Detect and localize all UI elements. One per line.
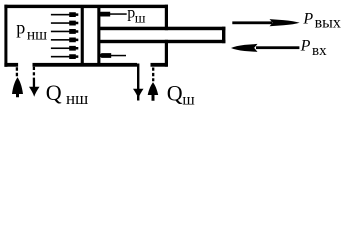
rod end cap <box>222 27 225 44</box>
pressure arrow pnsh 1 <box>51 12 78 17</box>
arrow Pvyh <box>232 19 299 26</box>
svg-text:нш: нш <box>66 89 88 108</box>
label psh <box>127 5 146 27</box>
svg-text:вх: вх <box>312 43 327 59</box>
pressure arrow pnsh 3 <box>51 29 78 34</box>
cylinder bottom wall segment 1 <box>4 63 18 67</box>
label pnsh <box>16 18 47 44</box>
cylinder left wall <box>4 5 7 67</box>
label Pvyh <box>302 10 341 31</box>
svg-text:Q: Q <box>46 80 62 105</box>
piston left face <box>81 8 84 63</box>
svg-text:ш: ш <box>182 91 195 108</box>
pressure arrow pnsh 4 <box>51 37 78 42</box>
cylinder top wall <box>4 5 168 8</box>
svg-text:P: P <box>302 10 313 27</box>
cylinder right wall lower <box>165 40 168 67</box>
arrow psh <box>99 12 127 17</box>
cylinder right wall upper <box>165 5 168 31</box>
rod bottom edge <box>100 40 225 43</box>
cylinder bottom wall segment 3 <box>151 63 168 67</box>
pressure arrow pnsh 6 <box>51 54 78 59</box>
dashed line left port right <box>33 67 35 80</box>
arrow Pvh <box>231 44 299 52</box>
rod top edge <box>100 27 225 31</box>
arrow Qnsh up <box>12 77 23 97</box>
right port solid line <box>137 64 139 90</box>
arrow Qsh down <box>133 89 144 101</box>
svg-text:вых: вых <box>315 15 341 32</box>
svg-text:нш: нш <box>27 27 47 44</box>
piston right face <box>97 8 100 63</box>
arrow rod-side lower <box>100 53 126 58</box>
label Qnsh <box>46 80 88 108</box>
svg-text:Q: Q <box>167 80 183 105</box>
pressure arrow pnsh 5 <box>51 46 78 51</box>
pressure arrow pnsh 2 <box>51 21 78 26</box>
cylinder bottom wall segment 2 <box>33 63 138 67</box>
label Pvh <box>300 37 327 59</box>
svg-text:ш: ш <box>135 11 146 26</box>
label Qsh <box>167 80 196 108</box>
dashed line left port left <box>16 67 18 76</box>
svg-text:p: p <box>16 18 25 38</box>
arrow Qnsh down <box>29 80 40 97</box>
arrow Qsh up <box>148 82 159 101</box>
svg-text:P: P <box>300 37 311 54</box>
dashed line right port <box>152 68 154 82</box>
